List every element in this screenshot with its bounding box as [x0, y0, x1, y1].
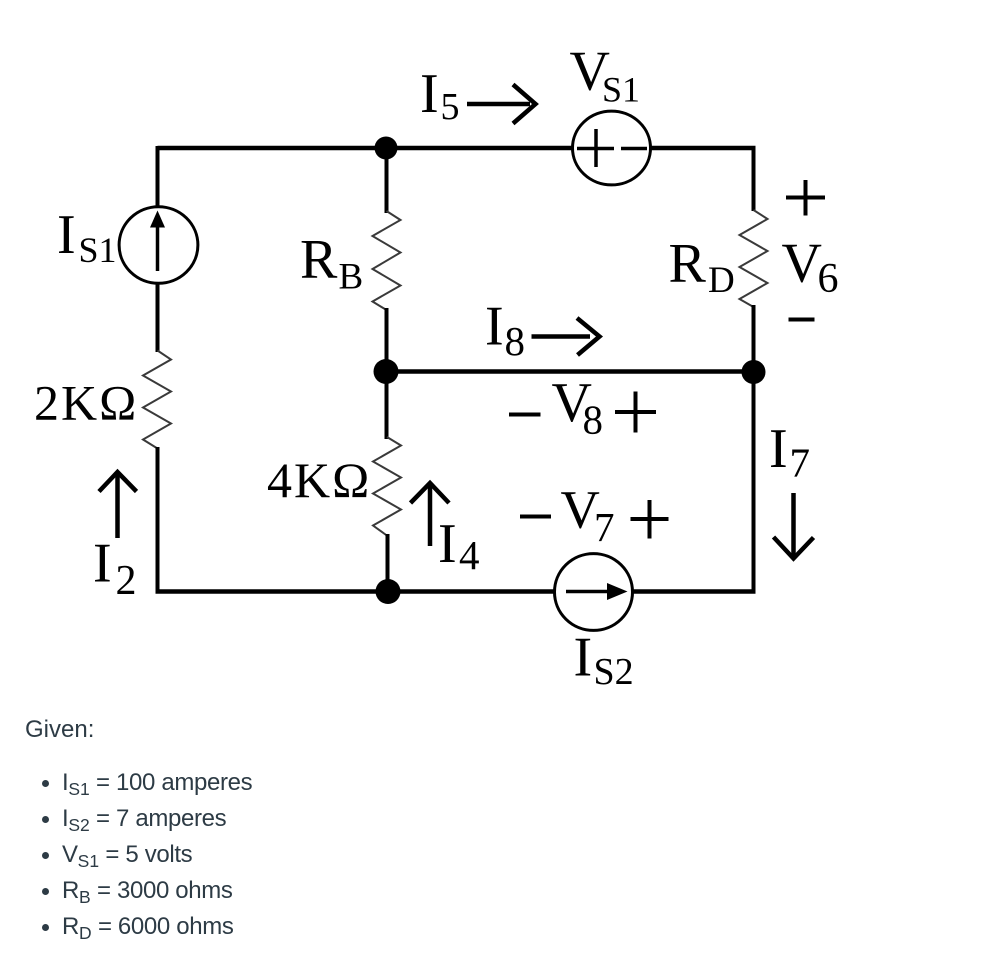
svg-text:7: 7: [790, 440, 811, 486]
arrow I5 (current direction right): [467, 85, 536, 124]
wire bottom-left segment: [156, 589, 389, 594]
wire top-left segment: [158, 146, 387, 151]
label plus of V8: [615, 392, 656, 433]
svg-text:6: 6: [818, 256, 839, 302]
arrow I2 (current direction up): [99, 472, 137, 538]
svg-text:R: R: [669, 233, 707, 295]
label I4: [438, 513, 480, 578]
svg-text:I: I: [93, 533, 112, 595]
svg-text:2KΩ: 2KΩ: [34, 375, 138, 431]
label I7: [769, 418, 810, 486]
label 4 K ohm: [267, 452, 371, 508]
node D (bottom junction): [376, 579, 401, 604]
label plus of V6: [786, 180, 825, 216]
svg-text:V: V: [782, 233, 822, 295]
current source IS1: [119, 207, 198, 284]
wire middle vertical (RB to node B): [385, 308, 389, 373]
svg-text:I: I: [574, 627, 593, 689]
wire right vertical lower (node C to bottom corner): [752, 372, 756, 594]
label IS1: [57, 204, 117, 270]
svg-text:I: I: [57, 204, 76, 266]
svg-text:4: 4: [459, 532, 480, 578]
wire left vertical bottom (2K to bottom corner): [156, 447, 160, 594]
wire right vertical middle (RD to node C): [752, 305, 756, 374]
label minus of V7: [520, 515, 551, 519]
svg-text:5: 5: [441, 86, 460, 128]
svg-text:I: I: [485, 296, 504, 358]
svg-text:4KΩ: 4KΩ: [267, 452, 371, 508]
svg-text:I: I: [438, 513, 457, 575]
voltage source VS1: [573, 111, 651, 185]
svg-text:8: 8: [505, 318, 526, 364]
label RB: [300, 229, 363, 298]
svg-text:I: I: [420, 63, 439, 125]
wire middle vertical bottom (4K to node D): [386, 534, 390, 593]
svg-text:S1: S1: [79, 230, 117, 270]
wire top-middle segment (node A to VS1): [386, 146, 573, 151]
svg-text:2: 2: [116, 558, 137, 604]
resistor 2K ohm zigzag: [143, 351, 171, 449]
label V7: [561, 479, 615, 551]
svg-text:B: B: [339, 257, 364, 298]
arrow I8 (current direction right): [532, 318, 600, 355]
current source IS2: [555, 554, 633, 631]
label plus of V7: [631, 500, 669, 539]
label I5: [420, 63, 460, 128]
resistor 4K ohm zigzag: [373, 437, 401, 536]
svg-text:R: R: [300, 229, 338, 291]
svg-text:D: D: [708, 260, 735, 301]
node C (right junction): [742, 360, 766, 384]
svg-text:S1: S1: [602, 70, 640, 110]
svg-text:8: 8: [583, 397, 604, 443]
label RD: [669, 233, 735, 302]
wire right vertical upper (corner to RD): [752, 146, 756, 211]
svg-text:S2: S2: [594, 651, 634, 693]
resistor RD zigzag: [740, 210, 768, 307]
label 2 K ohm: [34, 375, 138, 431]
wire top-right segment (VS1 to corner): [650, 146, 756, 151]
label IS2: [574, 627, 634, 694]
label V6: [782, 233, 839, 303]
node B (middle junction): [374, 359, 399, 384]
wire middle vertical top (node A to RB): [385, 148, 389, 213]
arrow I7 (current direction down): [774, 493, 814, 559]
label V8: [552, 372, 604, 443]
given heading: [25, 716, 94, 744]
wire bottom-middle segment (node D to IS2): [388, 589, 555, 594]
wire middle horizontal (node B to node C): [386, 369, 754, 374]
resistor RB zigzag: [373, 211, 401, 310]
label minus of V6: [789, 318, 815, 322]
wire left vertical middle (IS1 to 2K resistor): [156, 284, 160, 352]
wire left vertical top (corner to IS1): [156, 146, 160, 206]
wire middle vertical (node B to 4K resistor): [385, 372, 389, 440]
arrow I4 (current direction up): [411, 483, 450, 546]
given values list: [62, 765, 252, 944]
label minus of V8: [509, 413, 541, 417]
node A (top middle junction): [375, 137, 398, 160]
label I2: [93, 533, 137, 605]
wire bottom-right segment (IS2 to corner): [632, 589, 756, 594]
svg-text:I: I: [769, 418, 788, 480]
label I8: [485, 296, 525, 365]
label VS1: [570, 41, 641, 110]
svg-text:7: 7: [594, 504, 615, 550]
